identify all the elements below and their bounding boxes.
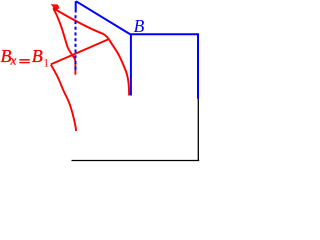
svg-text:B: B (32, 46, 43, 66)
H axis (bottom, black) (72, 160, 200, 162)
blue dashed vertical (75, 15, 77, 71)
blue major curve: apex, bowed slant, horizontal, right vertical (76, 1, 198, 99)
B axis lower segment (right, black) (197, 99, 199, 161)
hysteresis / demagnetization curve figure (0, 0, 232, 195)
svg-text:1: 1 (43, 57, 49, 69)
blue mid vertical (130, 34, 132, 95)
equals sign as bars (19, 59, 29, 61)
svg-text:x: x (10, 53, 17, 68)
red lower-left curve r4 to bottom (51, 65, 76, 131)
red arrowhead at upper-left end (51, 4, 60, 8)
svg-text:B: B (134, 16, 145, 36)
red steep curve C from arrow point down to dashed line (54, 9, 76, 75)
red upper branch from arrow to knee, then descent to (129,95.5) (53, 8, 129, 96)
blue solid stub below apex (75, 1, 77, 12)
red straight load line from label corner to knee (51, 39, 109, 64)
